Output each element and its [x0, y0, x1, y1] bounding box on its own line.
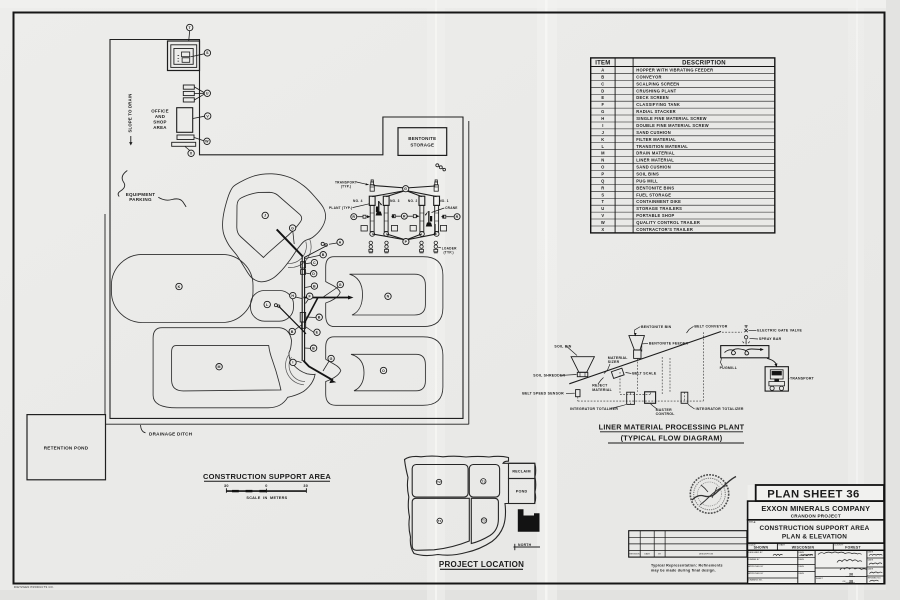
- column bottom line to O: [303, 361, 333, 381]
- fold crease middle: [545, 0, 548, 600]
- svg-text:CONTAINMENT DIKE: CONTAINMENT DIKE: [636, 199, 681, 204]
- pile label K: [176, 283, 182, 289]
- svg-text:PLANT (TYP.): PLANT (TYP.): [329, 206, 352, 210]
- svg-text:may be made during final desig: may be made during final design.: [651, 568, 716, 572]
- stockpile N inner: [350, 274, 426, 315]
- svg-text:G: G: [330, 357, 333, 361]
- svg-text:NO. 3: NO. 3: [390, 199, 400, 203]
- svg-text:CLASSIFYING TANK: CLASSIFYING TANK: [636, 102, 680, 107]
- L loadout icon: [274, 304, 280, 308]
- svg-text:PUG MILL: PUG MILL: [636, 178, 658, 183]
- svg-text:(TYPICAL FLOW DIAGRAM): (TYPICAL FLOW DIAGRAM): [621, 434, 723, 443]
- leader D: [305, 272, 310, 275]
- svg-text:(TYP.): (TYP.): [444, 250, 454, 254]
- svg-text:DATE: DATE: [799, 558, 805, 561]
- leader S: [190, 54, 204, 57]
- containment dike T (fuel storage outer): [168, 41, 200, 71]
- svg-text:Q: Q: [601, 178, 605, 183]
- svg-text:I: I: [292, 361, 293, 365]
- node E: [314, 329, 320, 335]
- stockpile M outer: [153, 328, 315, 408]
- svg-text:T3: T3: [482, 519, 486, 523]
- svg-text:REVISION: REVISION: [630, 554, 640, 556]
- svg-text:M: M: [217, 365, 220, 369]
- arrowhead into O: [329, 380, 336, 384]
- svg-text:SOIL BINS: SOIL BINS: [636, 171, 659, 176]
- stockpile O inner: [351, 354, 425, 391]
- svg-text:LINER MATERIAL PROCESSING PLAN: LINER MATERIAL PROCESSING PLANT: [599, 422, 745, 431]
- svg-text:X: X: [601, 227, 604, 232]
- pile label O: [380, 367, 386, 373]
- svg-text:AREA: AREA: [153, 125, 167, 130]
- parcel label T1: [481, 479, 486, 484]
- bentonite storage box: [398, 128, 447, 156]
- svg-text:INTEGRATOR TOTALIZER: INTEGRATOR TOTALIZER: [696, 407, 744, 411]
- bin R center: [401, 213, 407, 219]
- integrator totalizer 2: [681, 392, 688, 403]
- item circle S: [204, 50, 210, 56]
- svg-text:V: V: [601, 213, 604, 218]
- item circle T: [187, 24, 193, 30]
- svg-text:CRUSHING PLANT: CRUSHING PLANT: [636, 88, 676, 93]
- svg-text:U: U: [601, 206, 604, 211]
- node C: [311, 259, 317, 265]
- leader E: [306, 327, 314, 333]
- pugmill auger curl: [725, 349, 762, 355]
- svg-text:CONSTRUCTION SUPPORT AREA: CONSTRUCTION SUPPORT AREA: [203, 472, 331, 481]
- truck front icon: [769, 370, 785, 391]
- T2 parcel: [412, 465, 468, 498]
- node F: [307, 293, 313, 299]
- pile label L: [264, 301, 270, 307]
- svg-text:D: D: [601, 88, 604, 93]
- soil bin funnel: [571, 357, 594, 373]
- leader F: [306, 299, 309, 304]
- svg-text:NO. 2: NO. 2: [408, 199, 418, 203]
- svg-text:G: G: [339, 283, 342, 287]
- svg-text:DATE: DATE: [868, 568, 874, 571]
- svg-text:B: B: [312, 346, 315, 350]
- svg-text:E: E: [601, 95, 604, 100]
- stacker sweep arcs J: [288, 239, 312, 268]
- item description table: [591, 58, 775, 233]
- svg-text:ITEM: ITEM: [595, 60, 610, 66]
- svg-text:R: R: [601, 185, 604, 190]
- title box: [748, 520, 884, 543]
- stockpile M inner: [172, 346, 281, 391]
- svg-text:PLAN SHEET 36: PLAN SHEET 36: [767, 489, 859, 501]
- svg-text:CRANE: CRANE: [445, 206, 458, 210]
- svg-text:K: K: [601, 137, 604, 142]
- master control: [645, 392, 656, 404]
- svg-text:DATE: DATE: [799, 572, 805, 575]
- svg-text:E: E: [316, 331, 319, 335]
- svg-text:G: G: [291, 226, 294, 230]
- plant column: [301, 257, 303, 362]
- svg-text:FUEL STORAGE: FUEL STORAGE: [636, 192, 671, 197]
- svg-text:TITLE: TITLE: [749, 521, 756, 524]
- leader G-O: [323, 361, 329, 371]
- plant column NO. 3: [383, 196, 389, 236]
- svg-text:DRAIN MATERIAL: DRAIN MATERIAL: [636, 151, 675, 156]
- svg-text:WISCONSIN: WISCONSIN: [792, 546, 815, 550]
- svg-text:REVISED NO.: REVISED NO.: [868, 578, 882, 580]
- node D: [311, 271, 317, 277]
- svg-text:FOREST: FOREST: [845, 546, 861, 550]
- svg-text:PARKING: PARKING: [129, 197, 152, 202]
- leader H: [295, 297, 301, 299]
- node A: [337, 239, 343, 245]
- svg-text:DESCRIPTION: DESCRIPTION: [699, 554, 714, 556]
- gate valve feed line: [745, 339, 747, 345]
- parcel label T3: [481, 518, 486, 523]
- leader B3: [306, 316, 316, 319]
- bentonite bin funnel: [629, 336, 645, 350]
- svg-text:INTEGRATOR TOTALIZER: INTEGRATOR TOTALIZER: [570, 407, 618, 411]
- leader G-N: [324, 287, 339, 297]
- svg-text:DATE: DATE: [645, 553, 651, 556]
- svg-text:T2: T2: [437, 480, 441, 484]
- plant column NO. 1: [434, 196, 440, 236]
- svg-text:I: I: [602, 123, 603, 128]
- equipment parking squiggle left: [118, 171, 127, 197]
- item circle X: [188, 150, 194, 156]
- svg-text:SCALPING SCREEN: SCALPING SCREEN: [636, 81, 679, 86]
- svg-text:SOIL BIN: SOIL BIN: [554, 345, 571, 349]
- signature grid: [748, 550, 884, 583]
- parcel label T2: [436, 479, 441, 484]
- svg-text:STORAGE TRAILERS: STORAGE TRAILERS: [636, 206, 682, 211]
- stockpile L: [251, 291, 294, 322]
- leader B2: [305, 286, 311, 287]
- storage trailers U: [183, 85, 194, 89]
- ditch line right: [468, 121, 470, 424]
- plan sheet 36 box: [756, 485, 884, 501]
- svg-text:SCALE IN METERS: SCALE IN METERS: [246, 496, 287, 500]
- north arrow: [514, 546, 541, 548]
- svg-text:STATE: STATE: [778, 544, 785, 547]
- leader T: [189, 31, 190, 41]
- svg-text:RADIAL STACKER: RADIAL STACKER: [636, 109, 676, 114]
- svg-text:H: H: [601, 116, 604, 121]
- svg-text:APPROVED BY: APPROVED BY: [748, 572, 764, 575]
- exxon box: [748, 501, 884, 520]
- T4 parcel: [412, 498, 469, 550]
- svg-text:30: 30: [303, 484, 308, 488]
- feed line to N: [304, 297, 350, 299]
- svg-text:B: B: [313, 284, 316, 288]
- parcel label T4: [437, 518, 442, 523]
- svg-text:C: C: [313, 261, 316, 265]
- svg-text:J: J: [264, 214, 266, 218]
- reclaim box: [509, 463, 535, 478]
- stockpile J outer: [223, 174, 326, 282]
- stockpile K: [111, 254, 253, 322]
- svg-text:D: D: [312, 272, 315, 276]
- svg-text:CONTRACTOR’S TRAILER: CONTRACTOR’S TRAILER: [636, 227, 693, 232]
- svg-text:BELT CONVEYOR: BELT CONVEYOR: [694, 325, 727, 329]
- svg-text:P: P: [405, 240, 408, 244]
- leader B1: [305, 255, 320, 258]
- node B: [320, 252, 326, 258]
- crane left: [376, 201, 382, 216]
- svg-text:DESIGNED BY: DESIGNED BY: [748, 552, 763, 554]
- svg-text:TRANSPORT: TRANSPORT: [790, 376, 815, 380]
- svg-text:BELT SCALE: BELT SCALE: [632, 372, 657, 376]
- svg-text:A: A: [339, 240, 342, 244]
- T1 parcel: [469, 465, 499, 498]
- svg-text:M: M: [601, 151, 605, 156]
- svg-text:SLOPE TO DRAIN: SLOPE TO DRAIN: [128, 93, 133, 132]
- electric gate valve icon: [744, 326, 747, 332]
- loader icon: [420, 241, 424, 253]
- bin R right: [454, 214, 460, 220]
- stockpile O outer: [326, 337, 443, 406]
- fields row: [748, 543, 884, 550]
- node B: [311, 283, 317, 289]
- svg-text:T4: T4: [438, 519, 442, 523]
- svg-text:SINGLE FINE MATERIAL SCREW: SINGLE FINE MATERIAL SCREW: [636, 116, 706, 121]
- mid squares row: [361, 226, 367, 232]
- svg-text:NO. 4: NO. 4: [353, 199, 363, 203]
- leader B5: [305, 347, 311, 349]
- svg-text:PROJECT LOCATION: PROJECT LOCATION: [439, 560, 524, 569]
- bentonite feeder box: [634, 350, 641, 358]
- slope arrow: [130, 136, 132, 143]
- svg-text:C: C: [601, 81, 604, 86]
- svg-text:POND: POND: [516, 490, 528, 494]
- svg-text:G: G: [601, 109, 604, 114]
- svg-text:QUALITY CONTROL TRAILER: QUALITY CONTROL TRAILER: [636, 220, 700, 225]
- svg-text:B: B: [601, 74, 604, 79]
- svg-text:BENTONITE FEEDER: BENTONITE FEEDER: [649, 342, 689, 346]
- material sizer box: [611, 368, 624, 378]
- plant column NO. 2: [419, 196, 425, 236]
- pile label M: [216, 364, 222, 370]
- svg-text:DATE: DATE: [868, 559, 874, 562]
- plant column NO. 4: [369, 196, 375, 236]
- svg-text:BENTONITE BIN: BENTONITE BIN: [641, 325, 672, 329]
- loader icons near bentonite: [436, 164, 446, 171]
- svg-text:DECK SCREEN: DECK SCREEN: [636, 95, 669, 100]
- quality control trailer W: [177, 135, 194, 140]
- chute arrow pugmill to truck: [767, 358, 777, 365]
- svg-text:K: K: [178, 285, 181, 289]
- svg-text:COUNTY: COUNTY: [834, 545, 844, 547]
- svg-text:DATE: DATE: [799, 565, 805, 568]
- pugmill box: [721, 346, 769, 358]
- svg-text:B: B: [291, 330, 294, 334]
- bin R left: [351, 214, 357, 220]
- svg-text:CRANDON PROJECT: CRANDON PROJECT: [791, 514, 841, 519]
- hopper icon at column top: [305, 242, 328, 257]
- item circle V: [205, 113, 211, 119]
- radial stacker lines top: [372, 191, 406, 197]
- svg-text:H: H: [291, 294, 294, 298]
- svg-text:B: B: [318, 315, 321, 319]
- collector P: [403, 239, 409, 245]
- svg-text:HOPPER WITH VIBRATING FEEDER: HOPPER WITH VIBRATING FEEDER: [636, 67, 713, 72]
- stockpile N outer: [326, 257, 443, 327]
- svg-text:R: R: [456, 215, 459, 219]
- svg-text:10-31-85: 10-31-85: [801, 553, 813, 557]
- item circle U: [204, 90, 210, 96]
- svg-text:F: F: [602, 102, 605, 107]
- svg-text:T1: T1: [481, 480, 485, 484]
- svg-text:Typical Representation: Refin: Typical Representation: Refinements: [651, 564, 723, 568]
- scale bar: [226, 488, 306, 493]
- svg-text:TRANSITION MATERIAL: TRANSITION MATERIAL: [636, 144, 688, 149]
- title block background: [748, 485, 884, 584]
- contractors trailer X: [172, 142, 196, 146]
- stacker sweep arcs bottom: [286, 355, 305, 385]
- svg-text:W: W: [601, 220, 605, 225]
- leader B4: [295, 325, 302, 330]
- stacker pivot G: [403, 186, 409, 192]
- svg-text:OFFICE: OFFICE: [151, 109, 169, 114]
- fold crease right: [856, 0, 858, 600]
- svg-text:O: O: [382, 369, 385, 373]
- svg-text:AND: AND: [155, 114, 165, 119]
- revision table: [629, 531, 747, 557]
- column equipment boxes: [301, 262, 306, 268]
- node G: [328, 355, 334, 361]
- ditch line bottom: [106, 423, 469, 425]
- node G: [337, 281, 343, 287]
- crane right: [425, 211, 436, 235]
- svg-text:PUGMILL: PUGMILL: [720, 366, 738, 370]
- handwritten entries: [773, 552, 882, 582]
- svg-text:O: O: [601, 165, 605, 170]
- svg-text:0: 0: [265, 484, 267, 488]
- svg-text:P: P: [601, 171, 604, 176]
- svg-text:B: B: [322, 253, 325, 257]
- transport truck icon: [434, 180, 438, 191]
- svg-text:ELECTRIC GATE VALVE: ELECTRIC GATE VALVE: [757, 329, 802, 333]
- equipment parking squiggle right: [158, 197, 186, 207]
- spray bar icon: [744, 336, 747, 339]
- node H: [290, 292, 296, 298]
- svg-text:DRAWING NO.: DRAWING NO.: [748, 578, 763, 581]
- drainage ditch leader: [141, 425, 146, 433]
- collector lines bottom: [372, 234, 406, 240]
- svg-text:SIZER: SIZER: [608, 360, 620, 364]
- fold crease left: [435, 0, 437, 600]
- svg-text:G: G: [404, 187, 407, 191]
- svg-text:DESCRIPTION: DESCRIPTION: [682, 61, 726, 67]
- svg-text:SHEET: SHEET: [816, 578, 824, 580]
- node B: [289, 328, 295, 334]
- engineer stamp seal: [690, 475, 736, 513]
- project location blob: [405, 456, 536, 555]
- svg-text:SAND CUSHION: SAND CUSHION: [636, 165, 671, 170]
- leader G-J: [293, 231, 294, 244]
- leader A: [329, 243, 337, 244]
- transport truck icon: [370, 180, 374, 191]
- svg-text:W: W: [205, 140, 209, 144]
- svg-text:SAND CUSHION: SAND CUSHION: [636, 130, 671, 135]
- stockpile J inner: [237, 192, 302, 257]
- svg-text:DRAINAGE DITCH: DRAINAGE DITCH: [149, 431, 193, 436]
- svg-text:NO. 1: NO. 1: [439, 199, 449, 203]
- item circle W: [204, 138, 210, 144]
- svg-text:NORTH: NORTH: [518, 543, 532, 547]
- arrowhead into N: [348, 296, 354, 300]
- svg-text:SHOP: SHOP: [153, 120, 166, 125]
- svg-text:RECLAIM: RECLAIM: [512, 470, 531, 474]
- svg-text:FILTER MATERIAL: FILTER MATERIAL: [636, 137, 676, 142]
- svg-text:S: S: [206, 51, 209, 55]
- svg-text:SHOWN: SHOWN: [754, 546, 769, 550]
- svg-text:APPROVED BY: APPROVED BY: [748, 565, 764, 568]
- svg-text:CONVEYOR: CONVEYOR: [636, 74, 661, 79]
- conveyor line from J: [277, 229, 303, 256]
- svg-text:A: A: [601, 67, 604, 72]
- svg-text:MATERIAL: MATERIAL: [592, 388, 612, 392]
- branch diagonal: [305, 297, 319, 322]
- svg-text:V: V: [206, 114, 209, 118]
- R feed squares: [363, 215, 366, 218]
- control dashed lines: [578, 332, 742, 404]
- node B: [316, 314, 322, 320]
- diagonal from L icon: [279, 306, 306, 334]
- svg-text:L: L: [602, 144, 605, 149]
- pile label N: [385, 293, 391, 299]
- svg-text:DIETZGEN PRODUCTS CO.: DIETZGEN PRODUCTS CO.: [14, 585, 54, 589]
- svg-text:30: 30: [224, 484, 229, 488]
- pond box: [509, 479, 535, 504]
- ditch line left: [104, 214, 106, 415]
- loader icon: [434, 241, 438, 253]
- svg-text:CONTROL: CONTROL: [656, 412, 676, 416]
- svg-text:PORTABLE SHOP: PORTABLE SHOP: [636, 213, 674, 218]
- svg-text:36: 36: [849, 573, 853, 577]
- leader I: [296, 361, 302, 363]
- svg-text:EXXON MINERALS COMPANY: EXXON MINERALS COMPANY: [761, 504, 870, 513]
- svg-text:X: X: [190, 152, 193, 156]
- svg-text:J: J: [602, 130, 605, 135]
- transport truck box: [765, 367, 788, 391]
- belt speed sensor box: [576, 390, 580, 397]
- retention pond: [27, 415, 106, 480]
- R arrows: [357, 216, 362, 218]
- loader icon: [369, 241, 373, 253]
- loader icon: [385, 241, 389, 253]
- svg-text:BENTONITE BINS: BENTONITE BINS: [636, 185, 674, 190]
- svg-text:DOUBLE FINE MATERIAL SCREW: DOUBLE FINE MATERIAL SCREW: [636, 123, 709, 128]
- svg-text:BENTONITE: BENTONITE: [408, 136, 436, 141]
- pile label J: [262, 212, 268, 218]
- svg-text:CONSTRUCTION SUPPORT AREA: CONSTRUCTION SUPPORT AREA: [759, 525, 869, 532]
- integrator totalizer 1: [627, 392, 635, 404]
- site boundary fence: [110, 40, 463, 419]
- svg-text:N: N: [387, 295, 390, 299]
- svg-text:DRAWN BY: DRAWN BY: [748, 558, 760, 561]
- svg-text:PLAN & ELEVATION: PLAN & ELEVATION: [782, 533, 847, 540]
- leader C: [305, 262, 311, 265]
- node G: [289, 225, 295, 231]
- svg-text:S: S: [601, 192, 604, 197]
- svg-text:(TYP.): (TYP.): [341, 185, 351, 189]
- svg-text:R: R: [403, 214, 406, 218]
- svg-text:R: R: [352, 215, 355, 219]
- svg-text:T: T: [602, 199, 605, 204]
- svg-text:U: U: [206, 92, 209, 96]
- svg-text:STORAGE: STORAGE: [410, 143, 434, 148]
- svg-text:BELT SPEED SENSOR: BELT SPEED SENSOR: [522, 392, 564, 396]
- svg-text:EQUIPMENT: EQUIPMENT: [126, 192, 156, 197]
- belt conveyor line: [569, 332, 721, 384]
